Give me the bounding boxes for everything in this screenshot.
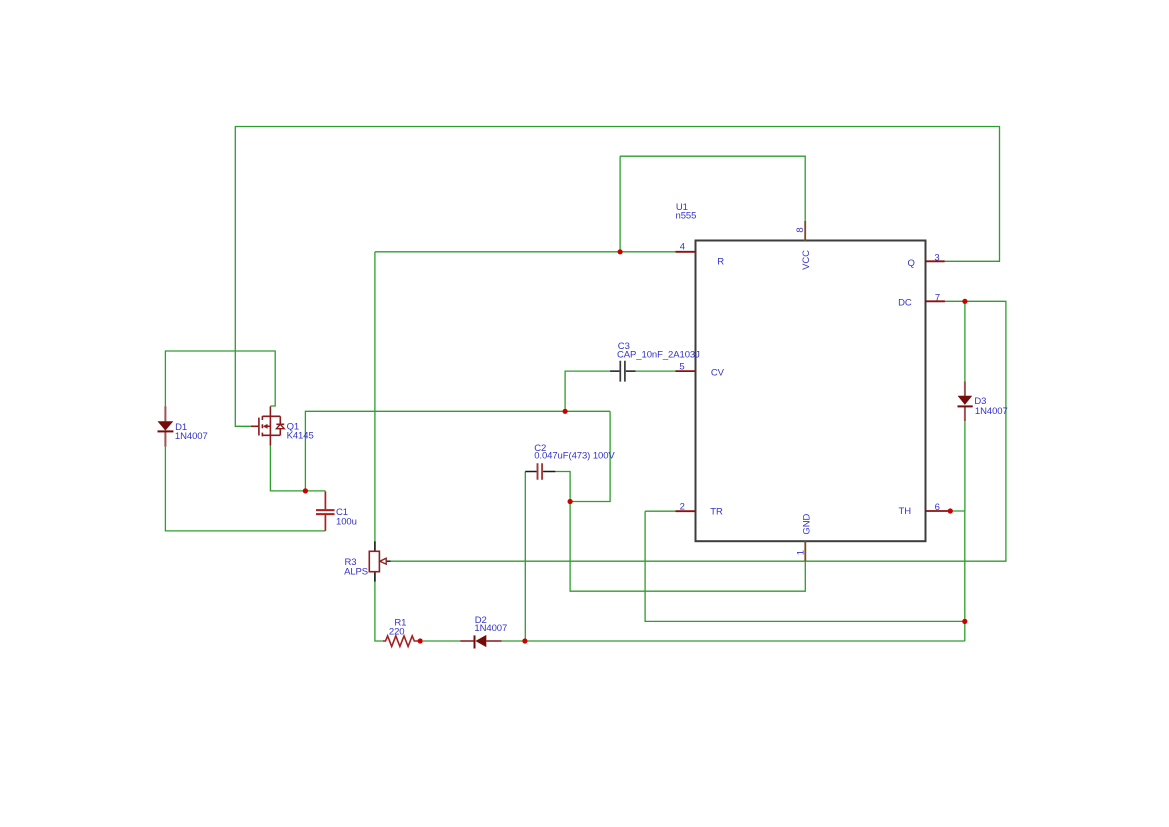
svg-text:CAP_10nF_2A103J: CAP_10nF_2A103J	[617, 350, 700, 361]
svg-text:n555: n555	[676, 211, 697, 222]
svg-text:1N4007: 1N4007	[175, 431, 208, 442]
svg-text:Q: Q	[908, 258, 915, 269]
svg-text:ALPS: ALPS	[344, 566, 368, 577]
svg-text:4: 4	[680, 241, 685, 252]
svg-text:TR: TR	[710, 507, 723, 518]
svg-text:0.047uF(473) 100V: 0.047uF(473) 100V	[534, 451, 615, 462]
svg-text:GND: GND	[802, 514, 813, 535]
svg-text:220: 220	[389, 627, 405, 638]
svg-text:7: 7	[935, 293, 940, 304]
svg-text:1N4007: 1N4007	[975, 406, 1008, 417]
svg-text:CV: CV	[711, 367, 725, 378]
svg-text:1: 1	[796, 550, 807, 555]
svg-text:1N4007: 1N4007	[474, 623, 507, 634]
svg-text:8: 8	[795, 227, 806, 232]
svg-text:K4145: K4145	[287, 430, 314, 441]
svg-text:DC: DC	[898, 298, 912, 309]
svg-text:3: 3	[934, 252, 939, 263]
svg-text:R: R	[717, 256, 724, 267]
svg-text:6: 6	[935, 502, 940, 513]
svg-text:5: 5	[679, 361, 684, 372]
svg-text:100u: 100u	[336, 516, 357, 527]
svg-text:2: 2	[680, 501, 685, 512]
svg-text:TH: TH	[899, 506, 912, 517]
svg-text:VCC: VCC	[801, 250, 812, 270]
